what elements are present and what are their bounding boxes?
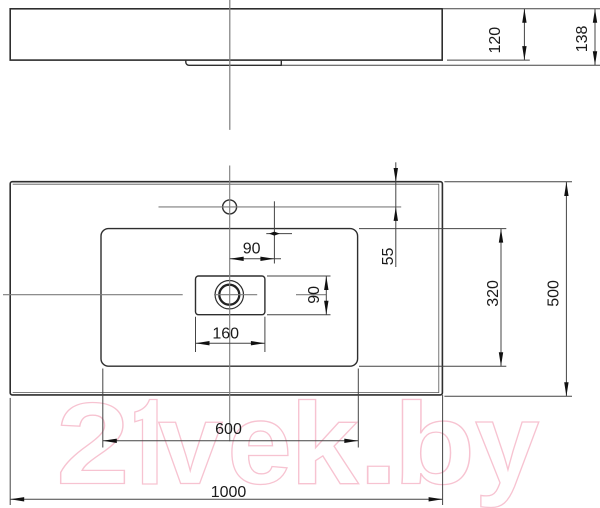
svg-text:y: y <box>475 379 540 508</box>
side view: faucet center line <box>229 0 231 130</box>
arrows 120 <box>522 9 526 23</box>
svg-text:320: 320 <box>485 280 502 307</box>
ext lines for 320 <box>359 228 506 230</box>
side view: bottom tab <box>186 60 281 65</box>
watermark 21vek.by <box>56 378 539 508</box>
svg-text:90: 90 <box>306 286 323 304</box>
svg-text:90: 90 <box>243 241 261 258</box>
dim 55 vertical line <box>395 162 397 267</box>
side view: main body outline <box>10 9 442 60</box>
ext line x=274.4 for dim 90 <box>273 201 275 263</box>
small tick line at y=233.6 <box>266 233 292 235</box>
drain outer circle <box>215 281 243 309</box>
arrows 320 <box>499 229 503 243</box>
svg-text:120: 120 <box>487 27 504 54</box>
svg-text:138: 138 <box>574 25 591 52</box>
arrows 160 <box>196 341 210 345</box>
ext lines for drain 90 <box>267 275 331 277</box>
faucet hole <box>223 200 237 214</box>
svg-text:500: 500 <box>545 280 562 307</box>
ext lines for 600 <box>102 369 104 448</box>
extension line tab bottom (y=65.3) <box>281 64 600 66</box>
arrows 55 (outside style) <box>394 168 398 182</box>
dim 500 line <box>565 182 567 396</box>
ext lines for 500 <box>444 181 572 183</box>
drain center line right segment <box>296 294 326 296</box>
ext lines for 160 <box>195 317 197 352</box>
svg-text:55: 55 <box>380 248 397 266</box>
arrows 1000 <box>10 497 24 501</box>
dim 160 line <box>196 342 265 344</box>
drain inner circle <box>219 285 239 305</box>
rhombus tick at 274.4,233.6 <box>269 232 280 236</box>
plan view: basin inner edge <box>101 229 358 367</box>
extension line box bottom (y=60.1) <box>447 59 530 61</box>
svg-text:160: 160 <box>212 326 239 343</box>
svg-text:b: b <box>393 378 475 508</box>
svg-text:2: 2 <box>56 379 130 508</box>
dim 90 top: dimension line <box>230 258 281 260</box>
svg-text:1000: 1000 <box>211 484 247 501</box>
arrows 600 <box>103 439 117 443</box>
arrows drain 90 <box>324 276 328 290</box>
dim 90 drain line <box>325 276 327 315</box>
drain center line left segment <box>3 294 183 296</box>
dimension line 138 <box>594 9 596 66</box>
svg-text:600: 600 <box>215 421 242 438</box>
drain box <box>196 276 265 315</box>
ext lines for 1000 <box>9 398 11 505</box>
extension line top (y=8.8) <box>442 8 600 10</box>
plan view: faucet horizontal center line <box>159 206 402 208</box>
svg-text:k: k <box>290 380 359 508</box>
arrows 90 top <box>230 257 244 261</box>
arrows 138 <box>593 9 597 23</box>
dimension line 120 <box>523 9 525 60</box>
drain center line middle segment <box>214 294 257 296</box>
dim 1000 line <box>10 498 442 500</box>
dim 320 line <box>500 229 502 367</box>
plan view: outer rim <box>10 182 442 395</box>
plan view: vertical center line <box>229 166 231 442</box>
dim 600 line <box>103 440 358 442</box>
arrows 500 <box>564 182 568 196</box>
plan view: inner rim offset <box>13 184 439 392</box>
